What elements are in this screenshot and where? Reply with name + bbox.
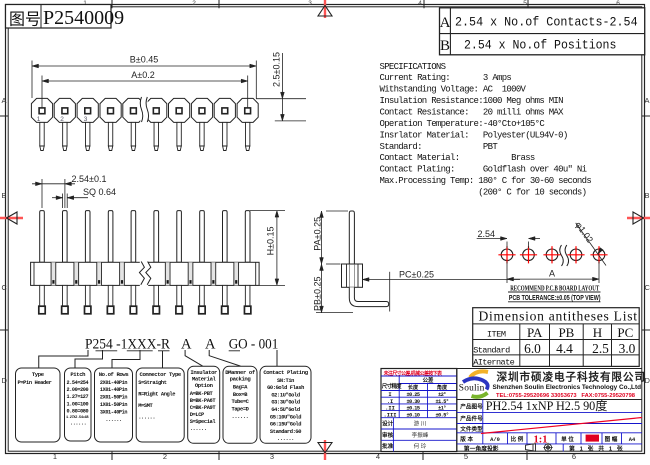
svg-text:2X01-50Pin: 2X01-50Pin — [100, 395, 127, 401]
svg-text:Operation Temperature:-40°Cto+: Operation Temperature:-40°Cto+105°C — [380, 119, 546, 129]
row product drawing number — [460, 398, 607, 413]
svg-text:±1°: ±1° — [438, 406, 446, 412]
svg-text:A: A — [181, 337, 192, 353]
svg-text:Contact Plating: Goldflas: Contact Plating: Goldflash over 40u" Ni — [380, 165, 587, 175]
svg-text:Contact Material: Br: Contact Material: Brass — [380, 153, 535, 163]
svg-text:R=Right Angle: R=Right Angle — [138, 391, 175, 397]
svg-text:SN:Tin: SN:Tin — [277, 378, 294, 384]
svg-text:M=SMT: M=SMT — [138, 403, 153, 409]
pcb break symbol — [560, 245, 569, 266]
svg-text:Insulation Resistance:1000 Meg: Insulation Resistance:1000 Meg ohms MIN — [380, 96, 564, 106]
svg-text:B±0.45: B±0.45 — [130, 54, 158, 64]
row version scale units — [459, 433, 636, 446]
soulin logo — [459, 371, 488, 396]
center mark top — [318, 0, 332, 18]
svg-text:H±0.15: H±0.15 — [266, 226, 276, 255]
svg-text:2.00=200: 2.00=200 — [67, 387, 89, 393]
top view break symbol — [140, 97, 148, 125]
center mark bottom — [318, 440, 332, 460]
svg-text:A: A — [440, 15, 451, 31]
svg-text:No.of Rows: No.of Rows — [99, 371, 130, 378]
svg-text:3: 3 — [84, 116, 88, 123]
svg-text:G4:5U"Gold: G4:5U"Gold — [271, 407, 300, 413]
formula box — [440, 8, 645, 55]
zone ticks top — [111, 0, 113, 8]
ordering box 5: Insulator Material Option — [188, 366, 220, 443]
dimension PA+-0.25 — [312, 211, 348, 264]
svg-text:长度: 长度 — [408, 383, 419, 391]
svg-text:3: 3 — [308, 0, 312, 7]
svg-text:.II: .II — [385, 406, 395, 412]
svg-text:李振峰: 李振峰 — [412, 431, 429, 439]
ordering leader lines — [39, 350, 277, 368]
svg-text:P2540009: P2540009 — [43, 7, 124, 29]
svg-text:6.0: 6.0 — [524, 341, 541, 356]
dimension A+-0.2 — [42, 70, 248, 108]
svg-text:Standard: PBT: Standard: PBT — [380, 142, 499, 152]
svg-text:C: C — [645, 283, 650, 292]
ordering box 4: Connector Type — [136, 368, 184, 442]
dimension phi 1.02 leader — [573, 220, 606, 266]
svg-text:packing: packing — [230, 376, 252, 383]
svg-text:B: B — [645, 191, 650, 200]
ordering code text P254 -1XXX-R A A GO - 001 — [85, 337, 278, 353]
side view pin header — [31, 211, 260, 314]
svg-text:1X01-40Pin: 1X01-40Pin — [100, 387, 127, 393]
dimension 2.5+-0.15 — [256, 52, 306, 121]
svg-text:2X01-40Pin: 2X01-40Pin — [100, 380, 127, 386]
svg-text:±1.5°: ±1.5° — [435, 399, 448, 405]
svg-text:第 1 张 共 1 张: 第 1 张 共 1 张 — [569, 445, 624, 453]
svg-text:3.0: 3.0 — [619, 341, 636, 356]
svg-text:B: B — [440, 38, 450, 54]
svg-text:2: 2 — [163, 452, 167, 460]
svg-text:Shenzhen Soulin Electronics Te: Shenzhen Soulin Electronics Technology C… — [493, 384, 642, 391]
ordering box 7: Contact Plating — [260, 366, 311, 443]
recommended pcb layout — [498, 246, 607, 263]
svg-text:游 川: 游 川 — [414, 420, 427, 428]
svg-text:D: D — [2, 376, 8, 385]
svg-text:设计: 设计 — [382, 420, 394, 428]
svg-text:Current Rating: 3 Amps: Current Rating: 3 Amps — [380, 73, 512, 83]
svg-text:图 幅: 图 幅 — [605, 435, 618, 443]
dimension A (pcb) — [507, 262, 599, 284]
svg-text:PB: PB — [558, 325, 574, 340]
svg-text:0.80=080: 0.80=080 — [67, 409, 89, 415]
svg-text:PA: PA — [527, 325, 543, 340]
svg-text:图号: 图号 — [9, 11, 41, 29]
svg-text:A: A — [645, 96, 650, 105]
zone ticks bottom — [111, 452, 113, 460]
svg-text:4: 4 — [376, 452, 380, 460]
svg-text:尺寸精度: 尺寸精度 — [382, 382, 402, 390]
svg-text:Withstanding Voltage: AC 1000: Withstanding Voltage: AC 1000V — [380, 85, 527, 95]
svg-text:TEL:0755-29520696 33053673 F: TEL:0755-29520696 33053673 FAX:0755-2952… — [496, 393, 636, 399]
svg-text:PB±0.25: PB±0.25 — [312, 277, 322, 311]
svg-text:P254 -1XXX-R: P254 -1XXX-R — [85, 337, 170, 353]
dimension B+-0.45 — [32, 54, 256, 98]
side view break symbol — [139, 261, 150, 287]
svg-text:A: A — [205, 337, 216, 353]
svg-text:Standard:G0: Standard:G0 — [270, 429, 301, 435]
svg-text:.III: .III — [384, 412, 397, 418]
svg-text:Dimension antitheses List: Dimension antitheses List — [479, 308, 638, 323]
svg-text:Max.Processing Temp: 180° C fo: Max.Processing Temp: 180° C for 30-60 se… — [380, 176, 592, 186]
svg-text:4.4: 4.4 — [556, 341, 573, 356]
title block tolerance table — [381, 369, 457, 452]
svg-text:2.54±0.1: 2.54±0.1 — [72, 174, 107, 184]
svg-text:SPECIFICATIONS: SPECIFICATIONS — [380, 62, 446, 72]
svg-text:审核: 审核 — [382, 431, 394, 439]
dimension 2.54 (pcb) — [477, 229, 540, 248]
svg-text:PC: PC — [617, 325, 633, 340]
svg-text:2: 2 — [192, 0, 196, 7]
svg-text:Soulin: Soulin — [459, 384, 485, 394]
svg-text:±2°: ±2° — [438, 392, 446, 398]
svg-text:Bag=A: Bag=A — [233, 384, 248, 390]
svg-text:C: C — [2, 283, 8, 292]
svg-text:Insrlator Material: Polyeste: Insrlator Material: Polyester(UL94V-0) — [380, 130, 568, 140]
center mark left — [0, 212, 23, 224]
dimension H+-0.15 — [250, 211, 285, 286]
dimension 2.54+-0.1 — [32, 174, 106, 208]
svg-text:Connector Type: Connector Type — [139, 371, 181, 378]
dimension PB+-0.25 — [312, 264, 353, 313]
svg-text:文件类型: 文件类型 — [460, 425, 483, 433]
svg-text:2.54 x No.of Positions: 2.54 x No.of Positions — [464, 39, 616, 53]
svg-text:A±0.2: A±0.2 — [131, 70, 154, 80]
svg-text:PC±0.25: PC±0.25 — [399, 269, 434, 279]
svg-text:Box=B: Box=B — [233, 392, 248, 398]
svg-text:2.5: 2.5 — [592, 341, 609, 356]
svg-text:B=BK-PA6T: B=BK-PA6T — [190, 398, 217, 404]
svg-text:±0.5°: ±0.5° — [435, 412, 448, 418]
svg-text:版 本: 版 本 — [459, 435, 473, 443]
svg-text:G6:15U"Gold: G6:15U"Gold — [270, 422, 301, 428]
ordering box 6: Manner of packing — [223, 366, 257, 443]
drawing number box — [6, 5, 112, 29]
svg-text:RECOMMEND P.C.B BOARD LAYOUT: RECOMMEND P.C.B BOARD LAYOUT — [510, 284, 600, 293]
svg-text:SQ 0.64: SQ 0.64 — [83, 187, 116, 197]
ordering box 2: Pitch — [65, 368, 92, 441]
svg-text:G5:10U"Gold: G5:10U"Gold — [270, 414, 301, 420]
svg-text:1.27=127: 1.27=127 — [67, 394, 89, 400]
svg-text:比 例: 比 例 — [511, 435, 524, 443]
svg-text:±0.30: ±0.30 — [406, 399, 419, 405]
svg-text:A: A — [549, 269, 555, 279]
svg-text:产品件号: 产品件号 — [460, 415, 483, 423]
svg-text:公差: 公差 — [423, 376, 434, 384]
zone ticks left — [0, 115, 8, 117]
svg-text:A=BK-PBT: A=BK-PBT — [190, 391, 214, 397]
svg-text:......: ...... — [190, 426, 207, 432]
svg-text:±0.10: ±0.10 — [406, 412, 419, 418]
svg-text:Type: Type — [32, 371, 45, 378]
svg-text:3: 3 — [270, 452, 274, 460]
svg-text:单 位: 单 位 — [561, 435, 574, 443]
svg-text:3X01-40Pin: 3X01-40Pin — [100, 409, 127, 415]
svg-text:S=Special: S=Special — [190, 419, 217, 425]
row projection — [464, 443, 624, 453]
svg-text:Contact Resistance: 20 milli: Contact Resistance: 20 milli ohms MAX — [380, 108, 565, 118]
svg-text:5: 5 — [523, 0, 527, 7]
svg-text:A: A — [2, 96, 7, 105]
svg-text:I: I — [388, 392, 391, 398]
svg-text:B: B — [2, 191, 7, 200]
svg-text:......: ...... — [70, 421, 86, 427]
svg-text:1X01-50Pin: 1X01-50Pin — [100, 402, 127, 408]
svg-text:ITEM: ITEM — [487, 330, 506, 340]
svg-text:6: 6 — [572, 452, 576, 460]
title block right section frame — [457, 369, 642, 452]
svg-text:Standard: Standard — [473, 346, 510, 356]
specifications text block — [380, 62, 592, 198]
svg-text:G2:1U"Gold: G2:1U"Gold — [271, 392, 300, 398]
svg-text:A4: A4 — [629, 437, 636, 443]
svg-text:6: 6 — [616, 0, 620, 7]
svg-text:何 玲: 何 玲 — [414, 442, 427, 450]
svg-text:......: ...... — [105, 417, 121, 423]
svg-text:2.54: 2.54 — [478, 229, 496, 239]
svg-text:第一角度投影: 第一角度投影 — [464, 445, 499, 453]
svg-text:±0.25: ±0.25 — [406, 392, 419, 398]
svg-text:(200° C for 10 seconds): (200° C for 10 seconds) — [380, 188, 587, 198]
top view pin header — [31, 98, 258, 150]
svg-text:2.54 x No.of Contacts-2.54: 2.54 x No.of Contacts-2.54 — [455, 16, 638, 30]
svg-text:1: 1 — [37, 116, 41, 123]
svg-text:S=Straight: S=Straight — [138, 380, 167, 386]
dimension antitheses list table — [473, 308, 640, 368]
svg-text:P=Pin Header: P=Pin Header — [18, 380, 52, 386]
svg-text:G0:Gold Flash: G0:Gold Flash — [267, 385, 304, 391]
svg-text:C=BK-PA9T: C=BK-PA9T — [190, 405, 217, 411]
svg-text:PA±0.25: PA±0.25 — [312, 217, 322, 251]
svg-text:产品图号: 产品图号 — [460, 403, 483, 411]
svg-text:1: 1 — [53, 452, 57, 460]
ordering box 3: No.of Rows — [95, 368, 133, 442]
svg-text:角度: 角度 — [437, 383, 448, 391]
svg-text:2.5±0.15: 2.5±0.15 — [272, 52, 282, 87]
svg-text:Tape=D: Tape=D — [231, 407, 249, 413]
pcb layout caption — [508, 284, 601, 302]
ordering box 1: Type — [16, 368, 61, 442]
svg-text:GO - 001: GO - 001 — [229, 337, 279, 353]
red diagonal line — [481, 418, 642, 434]
zone ticks right — [642, 115, 650, 117]
svg-text:D=LCP: D=LCP — [190, 412, 204, 418]
svg-text:H: H — [593, 325, 602, 340]
svg-text:1.27X2.54=1B: 1.27X2.54=1B — [66, 416, 89, 420]
svg-text:Pitch: Pitch — [70, 371, 86, 378]
svg-text:A/0: A/0 — [490, 437, 500, 443]
svg-text:2: 2 — [60, 116, 64, 123]
svg-text:PCB TOLERANCE:±0.05 (TOP VIEW): PCB TOLERANCE:±0.05 (TOP VIEW) — [509, 295, 601, 302]
svg-text:......: ...... — [277, 436, 294, 442]
svg-text:Contact Plating: Contact Plating — [263, 369, 308, 376]
svg-text:......: ...... — [138, 415, 155, 421]
svg-text:1.00=100: 1.00=100 — [67, 401, 89, 407]
svg-text:2.54=254: 2.54=254 — [67, 380, 89, 386]
svg-text:G3:3U"Gold: G3:3U"Gold — [271, 400, 300, 406]
svg-text:±0.15: ±0.15 — [406, 406, 419, 412]
svg-text:......: ...... — [231, 414, 248, 420]
svg-text:.I: .I — [387, 399, 393, 405]
svg-text:PH2.54 1xNP H2.5 90度: PH2.54 1xNP H2.5 90度 — [486, 398, 608, 413]
center mark right — [627, 212, 650, 224]
dimension SQ 0.64 — [52, 187, 116, 208]
svg-text:深圳市硕凌电子科技有限公司: 深圳市硕凌电子科技有限公司 — [497, 370, 646, 383]
svg-text:Tube=C: Tube=C — [231, 399, 249, 405]
svg-text:Option: Option — [195, 382, 214, 389]
svg-text:AIternate: AIternate — [473, 357, 514, 367]
svg-text:批准: 批准 — [382, 442, 394, 450]
dimension PC+-0.25 — [363, 269, 521, 311]
svg-text:4: 4 — [418, 0, 422, 7]
right angle pin side view — [342, 211, 389, 307]
svg-text:5: 5 — [464, 452, 468, 460]
